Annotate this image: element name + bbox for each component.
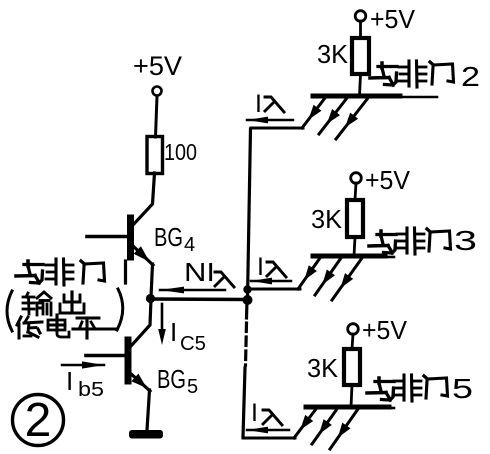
wire stub right of base bar (gate 5) bbox=[389, 407, 394, 410]
resistor 3K (gate 2) bbox=[352, 38, 369, 74]
multi-emitter input transistor base bar (gate 5) bbox=[306, 405, 389, 410]
current arrow I入 (gate 5, pointing left) bbox=[247, 429, 289, 432]
svg-text:4: 4 bbox=[184, 234, 195, 256]
wire: gate-1 output node to input bus node N bbox=[152, 297, 246, 301]
emitter 2 with arrow (gate 2) bbox=[319, 98, 347, 134]
wire stub right of base bar (gate 2) bbox=[400, 96, 437, 99]
wire: BG4 emitter to output node bbox=[151, 264, 153, 297]
svg-text:+5V: +5V bbox=[370, 4, 416, 34]
current arrow NI入 (pointing left) bbox=[160, 289, 225, 292]
label 电 bbox=[48, 315, 69, 337]
terminal circle +5V (gate 1) bbox=[153, 87, 162, 96]
wire: +5V terminal to resistor 100 bbox=[156, 96, 158, 137]
label 输 bbox=[23, 292, 51, 315]
emitter 2 with arrow (gate 5) bbox=[312, 409, 337, 444]
emitter 1 with arrow (gate 2) bbox=[302, 98, 325, 128]
label ( 输出 低电平 ) : open paren bbox=[7, 291, 12, 331]
wire: node to BG5 collector bbox=[131, 299, 151, 346]
wire: gate 3 input to bus bbox=[249, 288, 300, 291]
svg-text:I: I bbox=[251, 399, 258, 427]
svg-text:+5V: +5V bbox=[362, 315, 408, 345]
label 与非门2 (NAND gate 2) bbox=[370, 63, 397, 85]
wire: input bus lower solid section to gate 5 bbox=[243, 368, 245, 437]
terminal circle +5V (gate 3) bbox=[351, 173, 362, 184]
wire: +5V terminal to resistor 3K (gate 2) bbox=[359, 21, 362, 38]
transistor Q BG5: base bar bbox=[125, 340, 132, 381]
current arrow I入 (gate 3, pointing left) bbox=[251, 280, 291, 283]
emitter 3 with arrow (gate 5) bbox=[330, 409, 358, 449]
node: gate-3 input tap on bus bbox=[243, 285, 251, 293]
wire: input bus below node (solid stub) bbox=[245, 301, 249, 318]
emitter 3 with arrow (gate 3) bbox=[332, 258, 362, 300]
emitter 3 with arrow (gate 2) bbox=[336, 98, 368, 139]
wire: resistor 3K to input transistor base (gate 2) bbox=[360, 74, 361, 96]
current arrow Ib5 (pointing right) bbox=[62, 364, 104, 367]
emitter 2 with arrow (gate 3) bbox=[315, 258, 341, 295]
wire: +5V terminal to resistor 3K (gate 3) bbox=[355, 183, 356, 200]
wire: input bus dashed section bbox=[246, 323, 247, 365]
label 低 bbox=[17, 317, 42, 338]
svg-text:5: 5 bbox=[452, 373, 473, 404]
svg-text:NI: NI bbox=[184, 257, 215, 287]
svg-text:2: 2 bbox=[25, 394, 52, 447]
transistor BG4: emitter with arrow bbox=[132, 245, 153, 265]
ground symbol (solid bar) bbox=[129, 430, 163, 439]
terminal circle +5V (gate 5) bbox=[348, 324, 359, 335]
multi-emitter input transistor base bar (gate 2) bbox=[313, 94, 400, 99]
wire: resistor 3K to input transistor base (gate 5) bbox=[351, 385, 352, 407]
wire: gate 5 input to bus bbox=[243, 437, 295, 440]
svg-text:3K: 3K bbox=[317, 39, 349, 69]
emitter 1 with arrow (gate 5) bbox=[294, 409, 316, 438]
multi-emitter input transistor base bar (gate 3) bbox=[313, 254, 385, 259]
wire stub right of base bar (gate 3) bbox=[385, 256, 394, 259]
transistor BG5: emitter with arrow bbox=[130, 373, 150, 391]
svg-text:C5: C5 bbox=[180, 333, 206, 355]
resistor 3K (gate 5) bbox=[344, 349, 360, 385]
label close paren bbox=[117, 289, 123, 330]
current arrow IC5 (down) bbox=[161, 304, 164, 331]
transistor BG5: base lead wire bbox=[86, 354, 124, 358]
label 出 bbox=[60, 292, 84, 313]
label 与非门3 (NAND gate 3) bbox=[369, 231, 396, 253]
terminal circle +5V (gate 2) bbox=[355, 11, 366, 22]
svg-text:+5V: +5V bbox=[365, 165, 411, 195]
svg-text:100: 100 bbox=[164, 139, 197, 165]
emitter 1 with arrow (gate 3) bbox=[298, 258, 320, 289]
svg-text:+5V: +5V bbox=[133, 51, 182, 81]
svg-text:3: 3 bbox=[454, 225, 477, 256]
transistor Q BG4: base bar bbox=[127, 218, 134, 257]
wire: BG5 emitter to ground bbox=[147, 390, 150, 430]
label 与非门1 (NAND gate 1) bbox=[16, 259, 126, 285]
resistor 100 (collector load of BG4) bbox=[147, 137, 163, 174]
label 平 bbox=[73, 318, 116, 338]
wire: gate 2 input to bus bbox=[251, 127, 303, 130]
svg-text:3K: 3K bbox=[311, 204, 343, 234]
wire: input bus vertical (top section) bbox=[248, 129, 251, 299]
svg-text:BG: BG bbox=[157, 364, 186, 394]
svg-text:I: I bbox=[170, 317, 177, 347]
svg-text:2: 2 bbox=[461, 61, 480, 92]
svg-text:BG: BG bbox=[154, 222, 183, 252]
svg-text:b5: b5 bbox=[78, 379, 104, 401]
svg-text:I: I bbox=[66, 366, 73, 396]
wire: resistor 3K to input transistor base (gate 3) bbox=[354, 237, 355, 256]
svg-text:I: I bbox=[255, 90, 262, 118]
node N: main input bus junction bbox=[243, 295, 253, 305]
current arrow I入 (gate 2, pointing left) bbox=[247, 119, 293, 122]
resistor 3K (gate 3) bbox=[347, 200, 363, 237]
wire: +5V terminal to resistor 3K (gate 5) bbox=[352, 334, 353, 349]
svg-text:3K: 3K bbox=[307, 353, 339, 383]
wire: resistor 100 to BG4 collector bbox=[132, 173, 155, 226]
node: gate-1 output junction bbox=[146, 294, 155, 303]
label 与非门5 (NAND gate 5) bbox=[367, 378, 394, 400]
figure number circled 2 bbox=[13, 395, 64, 446]
svg-text:5: 5 bbox=[187, 376, 198, 398]
transistor BG4: base lead wire bbox=[87, 235, 127, 239]
svg-text:I: I bbox=[257, 253, 264, 281]
